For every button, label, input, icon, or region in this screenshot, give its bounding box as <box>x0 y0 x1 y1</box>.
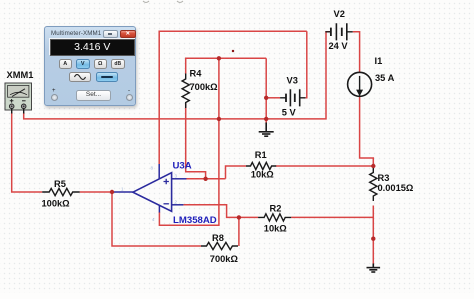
button V (selected) <box>76 59 90 70</box>
wire: minus input wire to R2 line <box>183 205 373 218</box>
svg-text:100kΩ: 100kΩ <box>42 199 71 209</box>
wire: R8 right up to R2 line junction <box>238 217 240 246</box>
svg-text:R4: R4 <box>190 69 203 79</box>
wire: V3 left stub <box>266 97 280 99</box>
battery V3 5V <box>280 89 305 106</box>
instrument XMM1 symbol <box>5 83 32 114</box>
junction at R2/R8 <box>237 215 241 219</box>
title bar text <box>51 30 101 37</box>
wire: R1 line from plus-input elbow to R3 column <box>226 166 374 179</box>
svg-text:4: 4 <box>152 217 155 222</box>
ground (below R3) <box>367 264 381 273</box>
junction mid vertical on minus wire <box>217 117 221 121</box>
svg-text:R1: R1 <box>255 150 267 160</box>
junction at plus input <box>203 177 207 181</box>
junction R1/R3/I1 <box>371 164 375 168</box>
wire: R3 bottom to ground 2 <box>372 206 374 265</box>
svg-text:U3A: U3A <box>173 161 192 172</box>
svg-text:3: 3 <box>175 174 178 179</box>
op-amp V- pin stub <box>158 205 160 212</box>
current source I1 35A <box>348 72 372 96</box>
op-amp minus input pin stub <box>172 204 184 206</box>
svg-text:LM358AD: LM358AD <box>173 215 217 226</box>
svg-text:2: 2 <box>175 199 178 204</box>
svg-text:5 V: 5 V <box>282 108 297 118</box>
wire: XMM1 minus terminal down then right to V2 left, up <box>24 32 331 119</box>
op-amp U3A triangle <box>133 173 172 212</box>
svg-text:35 A: 35 A <box>375 73 395 83</box>
screen-edge text remnants <box>143 1 183 3</box>
svg-text:R5: R5 <box>54 179 66 189</box>
battery V2 24V <box>325 23 352 40</box>
wire: V3 right up to top wire <box>305 31 306 98</box>
wire: output junction down and right to R8 left <box>112 192 201 246</box>
svg-text:10kΩ: 10kΩ <box>251 169 275 179</box>
button Ohm <box>94 59 108 70</box>
junction on R4 top wire <box>217 56 221 60</box>
button A <box>59 59 73 70</box>
wire: plus input wire <box>186 178 226 180</box>
svg-text:R2: R2 <box>270 203 282 213</box>
svg-text:R3: R3 <box>378 173 390 183</box>
stray net dot <box>232 50 234 52</box>
svg-text:I1: I1 <box>375 56 383 66</box>
wire: R4 top right to ground column <box>186 58 267 73</box>
op-amp plus input pin stub <box>172 178 187 180</box>
junction below R2 on ground column <box>371 237 375 241</box>
op-amp V+ pin stub <box>158 164 160 179</box>
junction at output node <box>110 190 114 194</box>
wire: top wire from op-amp V+ to V3 right column <box>159 31 307 164</box>
svg-text:24 V: 24 V <box>329 41 349 51</box>
set button <box>76 90 111 101</box>
ground (near V3) <box>259 123 274 137</box>
button sine <box>69 72 91 82</box>
wire: R4 bottom down to plus-input junction <box>186 104 206 179</box>
button dB <box>111 59 125 70</box>
svg-text:1: 1 <box>121 187 124 192</box>
junction V3 left <box>264 96 268 100</box>
svg-text:0.0015Ω: 0.0015Ω <box>378 183 414 193</box>
resistor R8 700kOhm <box>201 242 238 249</box>
resistor R5 100kOhm <box>42 188 80 195</box>
svg-text:700kΩ: 700kΩ <box>190 82 219 92</box>
close button <box>120 30 136 39</box>
resistor R3 0.0015Ohm (vertical) <box>370 168 377 201</box>
svg-text:R8: R8 <box>212 233 224 243</box>
wire: V2 right to I1 top <box>353 32 360 73</box>
svg-text:V3: V3 <box>287 76 298 86</box>
wire: ground column through V3 left and minus wire <box>265 58 267 123</box>
minimize button <box>103 30 118 39</box>
op-amp minus sign <box>164 203 169 205</box>
wire: XMM1 plus terminal down to R5 <box>12 113 43 193</box>
junction ground column on minus wire <box>264 117 268 121</box>
svg-text:700kΩ: 700kΩ <box>210 254 239 264</box>
op-amp plus sign <box>164 179 169 184</box>
wire: I1 bottom down, right, to R3 top junction <box>360 96 374 167</box>
svg-text:8: 8 <box>151 166 154 171</box>
multimeter window XMM1 <box>44 26 136 106</box>
svg-text:10kΩ: 10kΩ <box>264 223 288 233</box>
display <box>49 38 135 55</box>
wire: middle vertical from y58 junction to op-amp V- rail <box>159 58 219 225</box>
svg-text:XMM1: XMM1 <box>7 70 34 80</box>
plus terminal <box>52 88 56 94</box>
wire: R5 right to output junction <box>80 191 112 193</box>
resistor R4 700kOhm (vertical) <box>182 74 189 109</box>
minus terminal <box>128 88 130 94</box>
svg-text:V2: V2 <box>334 9 345 19</box>
bottom margin strip <box>0 293 474 299</box>
op-amp output pin stub <box>112 191 133 193</box>
resistor R1 10kOhm <box>246 162 276 169</box>
resistor R2 10kOhm <box>258 214 291 221</box>
button DC (selected) <box>96 72 118 82</box>
